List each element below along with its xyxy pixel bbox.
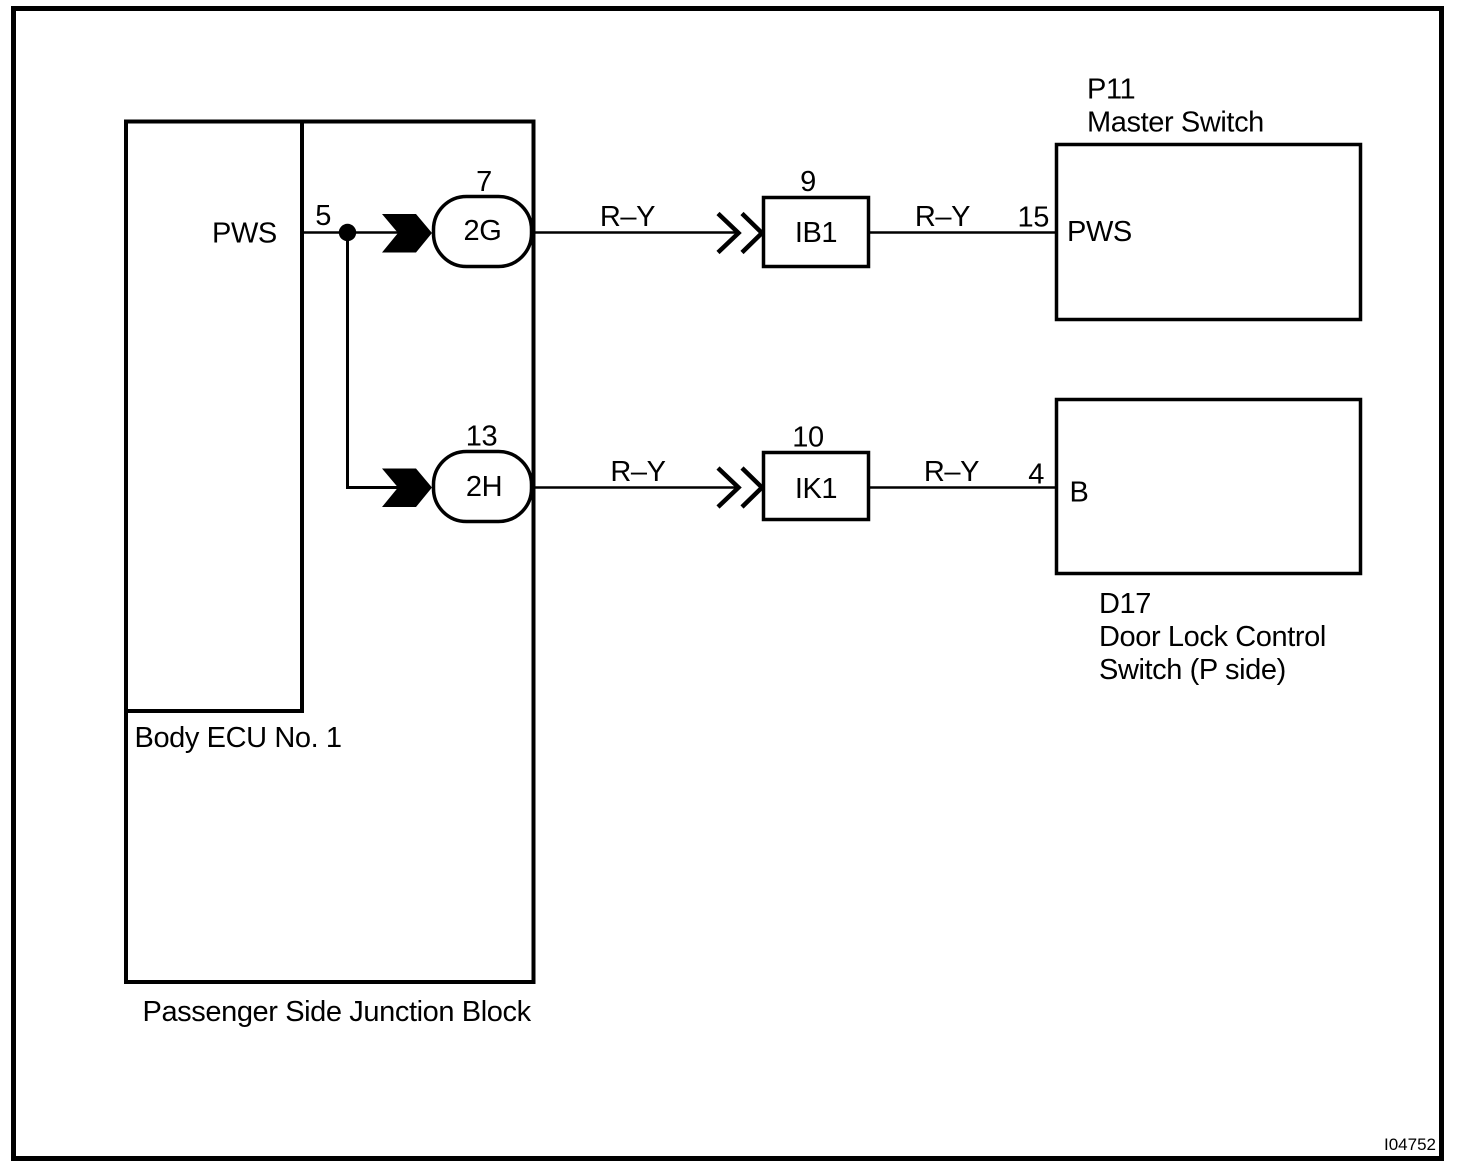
svg-text:PWS: PWS — [1067, 216, 1132, 248]
svg-text:P11: P11 — [1087, 74, 1135, 106]
arrow into connector 2H — [382, 469, 432, 508]
chevron pair at IB1 — [718, 214, 739, 253]
Body ECU No. 1 block outline — [126, 122, 302, 712]
wire: IK1 to Door Lock Control Switch pin 4 (R-Y) — [870, 486, 1056, 489]
svg-text:9: 9 — [800, 166, 816, 198]
component box P11 Master Switch — [1057, 145, 1361, 320]
arrow into connector 2G — [382, 214, 432, 253]
chevron pair at IK1 — [718, 468, 739, 507]
connector oval 2G — [434, 197, 532, 267]
svg-text:R–Y: R–Y — [924, 456, 979, 488]
wire: IB1 to Master Switch pin 15 (R-Y) — [870, 231, 1056, 234]
wire: branch from junction dot down and right to 2H arrow — [348, 238, 401, 488]
svg-text:PWS: PWS — [212, 218, 277, 250]
svg-text:Master Switch: Master Switch — [1087, 107, 1264, 139]
wire: Body ECU pin 5 to arrow (top row) — [302, 231, 400, 234]
svg-text:2G: 2G — [464, 215, 502, 247]
node: junction dot on pin 5 wire — [339, 224, 356, 241]
svg-text:Door Lock Control: Door Lock Control — [1099, 621, 1326, 653]
svg-text:R–Y: R–Y — [610, 456, 665, 488]
svg-text:4: 4 — [1028, 459, 1044, 491]
svg-text:R–Y: R–Y — [600, 201, 655, 233]
connector oval 2H — [434, 452, 532, 522]
svg-text:B: B — [1070, 477, 1089, 509]
svg-text:5: 5 — [315, 200, 331, 232]
wire: 2G to in-line connector IB1 (R-Y) — [520, 231, 737, 234]
svg-text:Switch (P side): Switch (P side) — [1099, 654, 1286, 686]
svg-text:15: 15 — [1018, 202, 1049, 234]
svg-text:Passenger Side Junction Block: Passenger Side Junction Block — [143, 996, 532, 1028]
svg-text:D17: D17 — [1099, 588, 1151, 620]
svg-text:2H: 2H — [466, 471, 502, 503]
junction connector box IK1 — [764, 453, 869, 520]
svg-text:10: 10 — [792, 422, 823, 454]
svg-text:13: 13 — [466, 421, 497, 453]
component box D17 Door Lock Control Switch — [1057, 400, 1361, 574]
wire: 2H to in-line connector IK1 (R-Y) — [520, 486, 737, 489]
svg-text:7: 7 — [476, 166, 492, 198]
svg-text:I04752: I04752 — [1384, 1135, 1436, 1154]
junction connector box IB1 — [764, 198, 869, 267]
svg-text:R–Y: R–Y — [915, 201, 970, 233]
svg-text:Body ECU No. 1: Body ECU No. 1 — [135, 722, 342, 754]
svg-text:IB1: IB1 — [795, 217, 837, 249]
junction block outline (Passenger Side Junction Block) — [126, 122, 534, 983]
svg-text:IK1: IK1 — [795, 473, 837, 505]
